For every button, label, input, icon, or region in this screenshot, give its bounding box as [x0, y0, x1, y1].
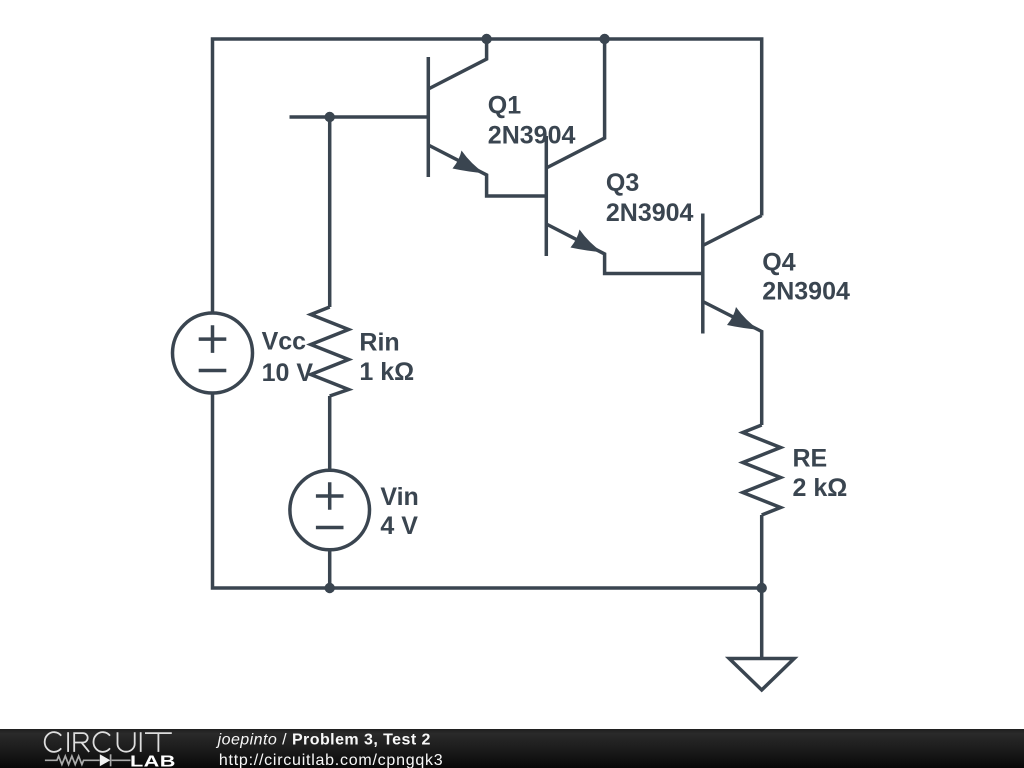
wire: Rin bottom lead to Vin — [328, 396, 332, 470]
transistor Q3 — [546, 39, 703, 274]
wire: Vcc bottom lead + bottom rail — [213, 393, 762, 588]
arrow Q3 emitter — [571, 230, 603, 253]
wire: ground lead — [760, 588, 764, 659]
svg-text:Q1: Q1 — [488, 91, 521, 119]
svg-text:Vin: Vin — [380, 483, 418, 511]
wire: left branch + top rail + right branch upper — [213, 39, 762, 313]
wire: Vin bottom lead — [328, 550, 332, 588]
arrow Q4 emitter — [727, 307, 759, 330]
arrow Q1 emitter — [453, 151, 485, 174]
svg-text:Rin: Rin — [359, 328, 399, 356]
svg-text:joepinto / Problem 3, Test 2: joepinto / Problem 3, Test 2 — [216, 732, 431, 749]
svg-text:4 V: 4 V — [380, 512, 418, 540]
svg-text:Q4: Q4 — [762, 248, 795, 276]
wire: RE bottom lead to bottom rail — [760, 515, 764, 588]
svg-text:LAB: LAB — [130, 752, 176, 768]
wire: Q1 base stub and lead — [290, 115, 429, 119]
voltage source Vcc — [173, 313, 253, 393]
CircuitLab logo resistor-diode squiggle — [45, 754, 131, 766]
svg-text:2 kΩ: 2 kΩ — [793, 474, 848, 502]
svg-text:Vcc: Vcc — [262, 328, 307, 356]
node: Q1 base / Rin junction — [325, 112, 335, 122]
svg-text:1 kΩ: 1 kΩ — [359, 358, 414, 386]
svg-text:http://circuitlab.com/cpngqk3: http://circuitlab.com/cpngqk3 — [219, 752, 444, 768]
voltage source Vin — [290, 470, 370, 550]
svg-text:RE: RE — [793, 445, 828, 473]
CircuitLab logo wordmark CIRCUIT — [45, 732, 172, 752]
resistor RE — [743, 425, 781, 515]
transistor Q1 — [428, 39, 546, 196]
node: RE / ground on bottom rail — [757, 583, 767, 593]
transistor Q4 — [703, 214, 762, 426]
svg-text:2N3904: 2N3904 — [762, 278, 850, 306]
svg-text:2N3904: 2N3904 — [488, 122, 576, 150]
ground — [729, 659, 794, 691]
node: Q1 collector on top rail — [481, 34, 491, 44]
wire: Rin top lead from base node — [328, 117, 332, 307]
node: Q3 collector on top rail — [599, 34, 609, 44]
footer bar — [0, 729, 1024, 768]
svg-text:10 V: 10 V — [262, 359, 314, 387]
svg-text:2N3904: 2N3904 — [606, 199, 694, 227]
resistor Rin — [311, 307, 349, 396]
CircuitLab logo diode — [100, 754, 111, 766]
svg-text:Q3: Q3 — [606, 169, 639, 197]
node: Vin on bottom rail — [325, 583, 335, 593]
